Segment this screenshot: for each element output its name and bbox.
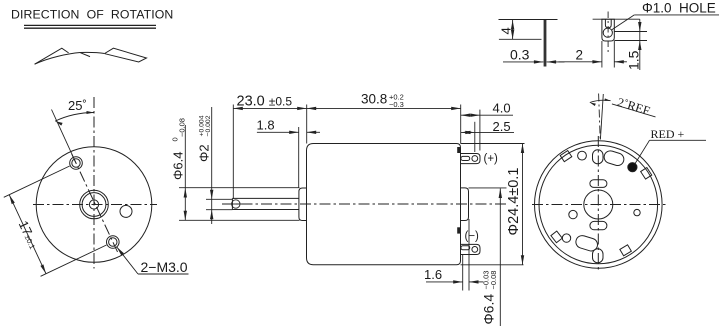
svg-text:−0.3: −0.3	[389, 100, 404, 109]
svg-text:(+): (+)	[484, 153, 499, 165]
svg-text:2.5: 2.5	[493, 119, 511, 134]
svg-text:1.5: 1.5	[626, 50, 642, 70]
svg-text:−0.08: −0.08	[489, 271, 498, 290]
svg-text:1.8: 1.8	[257, 118, 275, 133]
svg-text:30.8: 30.8	[361, 92, 387, 107]
svg-text:23.0 ±0.5: 23.0 ±0.5	[237, 94, 293, 110]
svg-text:−0.08: −0.08	[177, 118, 186, 137]
svg-text:Φ1.0 HOLE: Φ1.0 HOLE	[642, 1, 716, 16]
svg-text:2−M3.0: 2−M3.0	[141, 259, 188, 275]
svg-text:0.3: 0.3	[510, 47, 530, 63]
svg-text:4.0: 4.0	[493, 101, 511, 116]
svg-text:1.6: 1.6	[424, 267, 442, 282]
svg-text:(−): (−)	[465, 230, 480, 242]
svg-text:17±0.1: 17±0.1	[16, 218, 42, 251]
svg-text:RED +: RED +	[651, 127, 685, 141]
svg-text:Φ2: Φ2	[197, 144, 212, 162]
svg-text:2: 2	[576, 48, 584, 63]
svg-text:Φ24.4±0.1: Φ24.4±0.1	[506, 168, 522, 236]
svg-text:Φ6.4: Φ6.4	[481, 294, 497, 325]
svg-text:4: 4	[499, 27, 514, 34]
svg-text:−0.002: −0.002	[205, 115, 212, 136]
svg-text:DIRECTION OF ROTATION: DIRECTION OF ROTATION	[11, 8, 173, 22]
svg-text:Φ6.4: Φ6.4	[171, 152, 186, 180]
svg-text:25˚: 25˚	[68, 98, 87, 113]
